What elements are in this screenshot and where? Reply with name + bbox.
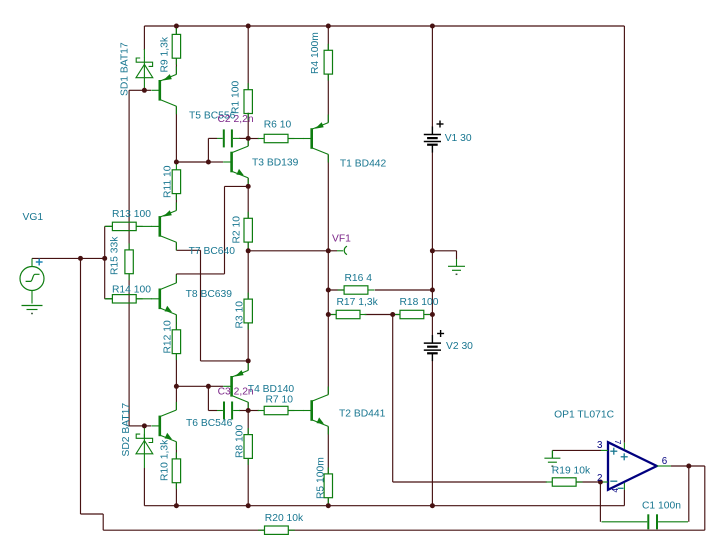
wire R9 top to rail [175, 26, 177, 34]
wire SD1 anode to T5 base junction [143, 89, 145, 92]
wire T8 collector stub [175, 274, 177, 283]
wire R13 left lead corner [105, 225, 113, 227]
wire T6 collector stub [175, 386, 177, 410]
wire T4 emitter stub [247, 361, 249, 371]
wire V1 column rail to battery [431, 26, 433, 127]
wire R8 top from C3 node [247, 411, 249, 435]
wire SD1 column from rail [143, 26, 145, 50]
wire opamp output to junction [671, 465, 689, 467]
resistor R4 [324, 50, 332, 74]
svg-text:T7 BC640: T7 BC640 [189, 246, 236, 257]
transistor T7 BC640 [151, 202, 176, 250]
green lead R13 left [105, 225, 113, 227]
svg-text:7: 7 [613, 440, 622, 445]
wire R14 left lead corner [105, 298, 113, 300]
svg-text:R15 33k: R15 33k [110, 236, 121, 275]
svg-text:T2 BD441: T2 BD441 [339, 409, 386, 420]
wire T7 collector stub [175, 242, 177, 250]
wire C2 branch vertical [207, 138, 209, 162]
wire C2 right plate to node [239, 137, 248, 139]
wire T5 collector to R11 node [175, 106, 177, 162]
svg-text:R20 10k: R20 10k [265, 513, 304, 524]
svg-text:SD2 BAT17: SD2 BAT17 [121, 403, 132, 457]
svg-text:R7 10: R7 10 [266, 395, 294, 406]
wire R2 top from T3 emitter node [247, 186, 249, 218]
wire opamp pin4 supply to negative rail [623, 490, 625, 506]
resistor R12 [172, 330, 180, 354]
battery V1 [424, 127, 441, 153]
opamp minus supply marker [618, 487, 624, 489]
svg-text:T6 BC546: T6 BC546 [186, 418, 233, 429]
node C3 branch [206, 384, 211, 389]
node input feedback [78, 256, 83, 261]
svg-text:R1 100: R1 100 [231, 81, 242, 114]
wire supply column to V2 [431, 315, 433, 336]
node opamp pin2 [598, 480, 603, 485]
wire R4 bottom to T1 emitter [327, 74, 329, 123]
resistor R6 [264, 134, 288, 142]
wire R16 left node row [328, 289, 344, 291]
resistor R5 [324, 474, 332, 498]
node supply midpoint [430, 248, 435, 253]
svg-text:R13 100: R13 100 [112, 209, 151, 220]
resistor R17 [336, 310, 360, 318]
wire R3 top from output row node [247, 251, 249, 299]
node rail-V1 [430, 24, 435, 29]
wire output row R2 to output column [248, 250, 328, 252]
resistor R18 [400, 310, 424, 318]
wire R6 lead to T1 base [288, 138, 304, 140]
svg-text:6: 6 [662, 456, 668, 467]
opamp plus input marker [610, 448, 617, 455]
wire R12 bottom to node [175, 353, 177, 386]
wire R17 right lead to feedback node [365, 314, 393, 316]
ground opamp pin3 [544, 458, 560, 462]
wire R11 bottom to T7 emitter [175, 194, 177, 211]
wire opamp pin7 supply from top rail [623, 26, 625, 443]
transistor T6 BC546 [151, 402, 176, 450]
wire T4 base branch to base [208, 385, 223, 387]
wire T7 collector to T4 emitter node [201, 360, 249, 362]
wire T1 collector down to output node [327, 154, 329, 250]
resistor R2 [244, 218, 252, 242]
wire V1 battery to mid node [431, 152, 433, 251]
transistor T1 BD442 [303, 115, 328, 163]
svg-text:T3 BD139: T3 BD139 [252, 157, 299, 168]
svg-text:R16 4: R16 4 [345, 273, 373, 284]
resistor R11 [172, 170, 180, 194]
wire T8 collector jog [176, 273, 224, 275]
plus VG1 [36, 259, 43, 266]
wire C1 right to output junction [688, 466, 690, 522]
op-amp OP1 TL071C [608, 442, 657, 490]
wire T8 collector riser [224, 186, 226, 274]
svg-text:R14 100: R14 100 [112, 285, 151, 296]
wire C3 right plate to node [239, 410, 248, 412]
wire R12 node to T4 base branch node [176, 385, 208, 387]
wire T5 base junction to bias rail [129, 89, 144, 91]
wire pin2 node down to C1 [599, 482, 601, 522]
wire T7 collector riser down [200, 250, 202, 361]
node R17 left [326, 312, 331, 317]
node R16 left [326, 288, 331, 293]
wire opamp pin3 from ground [552, 449, 601, 451]
node negative rail R8 [246, 503, 251, 508]
transistor T3 BD139 [223, 138, 248, 186]
wire pin3 ground stub [551, 450, 553, 458]
svg-text:R6 10: R6 10 [264, 120, 292, 131]
capacitor C1 [648, 514, 657, 529]
resistor R1 [244, 90, 252, 114]
node C3-R7-R8-T4 collector [246, 408, 251, 413]
wire T6 base [144, 425, 151, 427]
wire C3 branch horizontal to left plate [208, 410, 217, 412]
node negative rail R10 [174, 503, 179, 508]
node output VF1 [326, 248, 331, 253]
svg-text:T8 BC639: T8 BC639 [186, 289, 233, 300]
svg-text:T1 BD442: T1 BD442 [340, 159, 387, 170]
node C2 branch [206, 160, 211, 165]
svg-text:R10 1,3k: R10 1,3k [160, 439, 171, 481]
wire R6 left lead from node [248, 138, 259, 140]
wire R17 left node row [328, 314, 336, 316]
wire bottom feedback row left of R20 [103, 529, 264, 531]
node T4 emitter [246, 358, 251, 363]
svg-text:R5 100m: R5 100m [316, 457, 327, 499]
op-amp pin stubs [601, 449, 608, 451]
wire T5 base [144, 89, 151, 91]
wire R7 left lead from node [248, 410, 259, 412]
svg-text:R2 10: R2 10 [232, 216, 243, 244]
wire R8 bottom to negative rail [247, 458, 249, 505]
svg-text:R11 10: R11 10 [163, 165, 174, 198]
wire bias rail left vertical lower (from R15) [128, 274, 130, 426]
resistor R14 [112, 295, 136, 303]
transistor T4 BD140 [223, 362, 248, 410]
diode SD2 symbol [136, 434, 153, 455]
svg-text:R18 100: R18 100 [400, 297, 439, 308]
resistor R19 [552, 478, 576, 486]
resistor R8 [244, 435, 252, 459]
svg-text:C2 2,2n: C2 2,2n [218, 114, 254, 125]
wire R11 node to C2 branch node [176, 161, 208, 163]
wire input row VG1 to first node [32, 257, 81, 259]
svg-text:SD1 BAT17: SD1 BAT17 [120, 42, 131, 96]
battery V2 [424, 335, 441, 361]
wire feedback column down [392, 315, 394, 483]
svg-text:R8 100: R8 100 [234, 425, 245, 458]
wire R7 lead to T2 base [288, 410, 304, 412]
node T3 emitter [246, 184, 251, 189]
svg-text:V1 30: V1 30 [445, 133, 472, 144]
wire negative rail [144, 505, 624, 507]
svg-text:R9 1,3k: R9 1,3k [160, 36, 171, 72]
svg-text:OP1 TL071C: OP1 TL071C [554, 410, 614, 421]
wire T3 emitter node to T8 collector riser [225, 185, 249, 187]
probe VF1 [328, 250, 337, 252]
wire top positive rail [144, 25, 624, 27]
wire R19 right to opamp pin2 node [576, 481, 600, 483]
opamp plus supply marker [621, 453, 628, 460]
wire C3 branch vertical [207, 386, 209, 410]
wire T6 emitter to R10 [175, 442, 177, 459]
diode SD1 symbol [136, 58, 153, 78]
wire T4 collector stub [247, 402, 249, 410]
wire T3 emitter stub to node [247, 178, 249, 187]
ground VG1 [22, 306, 43, 310]
wire bottom feedback row right of R20 [288, 529, 705, 531]
node rail-R4 [326, 24, 331, 29]
svg-text:R12 10: R12 10 [163, 320, 174, 353]
wire R5 bottom to negative rail [327, 498, 329, 506]
wire bottom feedback jog [102, 514, 104, 530]
transistor T5 BC556 [151, 66, 176, 114]
wire T2 emitter to R5 [327, 426, 329, 474]
ground supply midpoint [448, 266, 465, 270]
node R18 right [430, 312, 435, 317]
node input R13-R14 [102, 256, 107, 261]
svg-text:3: 3 [597, 440, 603, 451]
diode SD1 BAT17 [143, 49, 145, 58]
svg-text:C1 100n: C1 100n [642, 501, 681, 512]
transistor T8 BC639 [151, 275, 176, 323]
plus V2 [437, 330, 444, 337]
wire bias rail to SD2 junction [129, 425, 144, 427]
wire T7 collector jog [176, 249, 200, 251]
wire left feedback column to input node [80, 258, 82, 514]
svg-text:V2 30: V2 30 [446, 341, 473, 352]
wire R9 bottom to T5 emitter [175, 58, 177, 74]
resistor R20 [265, 526, 289, 534]
node rail-R9 [174, 24, 179, 29]
svg-text:T4 BD140: T4 BD140 [248, 384, 295, 395]
wire C2 node to T3 base [208, 161, 223, 163]
svg-text:R17 1,3k: R17 1,3k [337, 297, 379, 308]
node SD1-T5 base [142, 88, 147, 93]
node negative rail R5 [326, 503, 331, 508]
wire SD2 cathode lead down [143, 468, 145, 506]
wire supply column R17 row [431, 290, 433, 315]
resistor R9 [172, 34, 180, 58]
node R12-T6 collector [174, 384, 179, 389]
green lead R18 left [394, 314, 401, 316]
wire R2 bottom to output row node [247, 242, 249, 251]
wire T8 emitter to R12 [175, 315, 177, 330]
wire R1 bottom to C2 node [247, 113, 249, 139]
wire R1 top to rail [247, 26, 249, 90]
wire R10 bottom to negative rail [175, 483, 177, 506]
resistor R16 [344, 286, 368, 294]
svg-text:4: 4 [611, 488, 620, 493]
wire R13 lead to T7 base [136, 225, 152, 227]
node R17-R18 feedback [390, 312, 395, 317]
resistor R3 [244, 299, 252, 323]
resistor R7 [264, 406, 288, 414]
node negative rail V2 [430, 503, 435, 508]
svg-text:R19 10k: R19 10k [552, 466, 591, 477]
node C2-R1-R6-T3 collector [246, 136, 251, 141]
wire V2 bottom to negative rail [431, 361, 433, 506]
voltage source VG1 [20, 267, 44, 291]
opamp minus input marker [610, 480, 617, 482]
node R11-T5 collector [174, 160, 179, 165]
node R16 right [430, 288, 435, 293]
node rail-R1 [246, 24, 251, 29]
wire R3 bottom to T4 emitter node [247, 323, 249, 361]
svg-text:2: 2 [597, 473, 602, 484]
diode SD2 BAT17 [143, 426, 145, 438]
capacitor C2 [224, 129, 232, 147]
resistor R10 [172, 459, 180, 483]
green lead R14 left [105, 298, 113, 300]
wire mid node to ground stub [432, 250, 456, 252]
svg-text:VF1: VF1 [332, 233, 351, 244]
node SD2-T6 base [142, 423, 147, 428]
wire R16 right lead [375, 289, 433, 291]
wire supply column R16 row [431, 251, 433, 290]
wire R14 lead to T8 base [136, 298, 152, 300]
svg-text:VG1: VG1 [23, 212, 44, 223]
resistor R13 [112, 222, 136, 230]
node R2-R3-output row [246, 248, 251, 253]
resistor R15 [125, 250, 133, 274]
node opamp output [686, 464, 691, 469]
wire output column to T2 collector [327, 315, 329, 395]
wire output junction to right edge [689, 465, 705, 467]
wire feedback to R19 [393, 481, 547, 483]
wire C2 branch horizontal to left plate [208, 137, 217, 139]
green lead R9 top [175, 28, 177, 35]
wire right edge down to feedback bottom [704, 466, 706, 530]
plus V1 [437, 121, 444, 128]
wire R18 row between nodes [393, 314, 400, 316]
wire R13/R14 left vertical [104, 226, 106, 298]
transistor T2 BD441 [303, 387, 328, 435]
capacitor C3 [224, 402, 232, 420]
wire R4 top to rail [327, 26, 329, 50]
wire output column down through R16 R17 rows [327, 251, 329, 315]
svg-text:R4 100m: R4 100m [310, 32, 321, 74]
wire T3 collector stub [247, 138, 249, 146]
wire bias rail left vertical upper (to R15) [128, 90, 130, 250]
svg-text:R3 10: R3 10 [234, 301, 245, 329]
wire input row first to second node [81, 257, 105, 259]
